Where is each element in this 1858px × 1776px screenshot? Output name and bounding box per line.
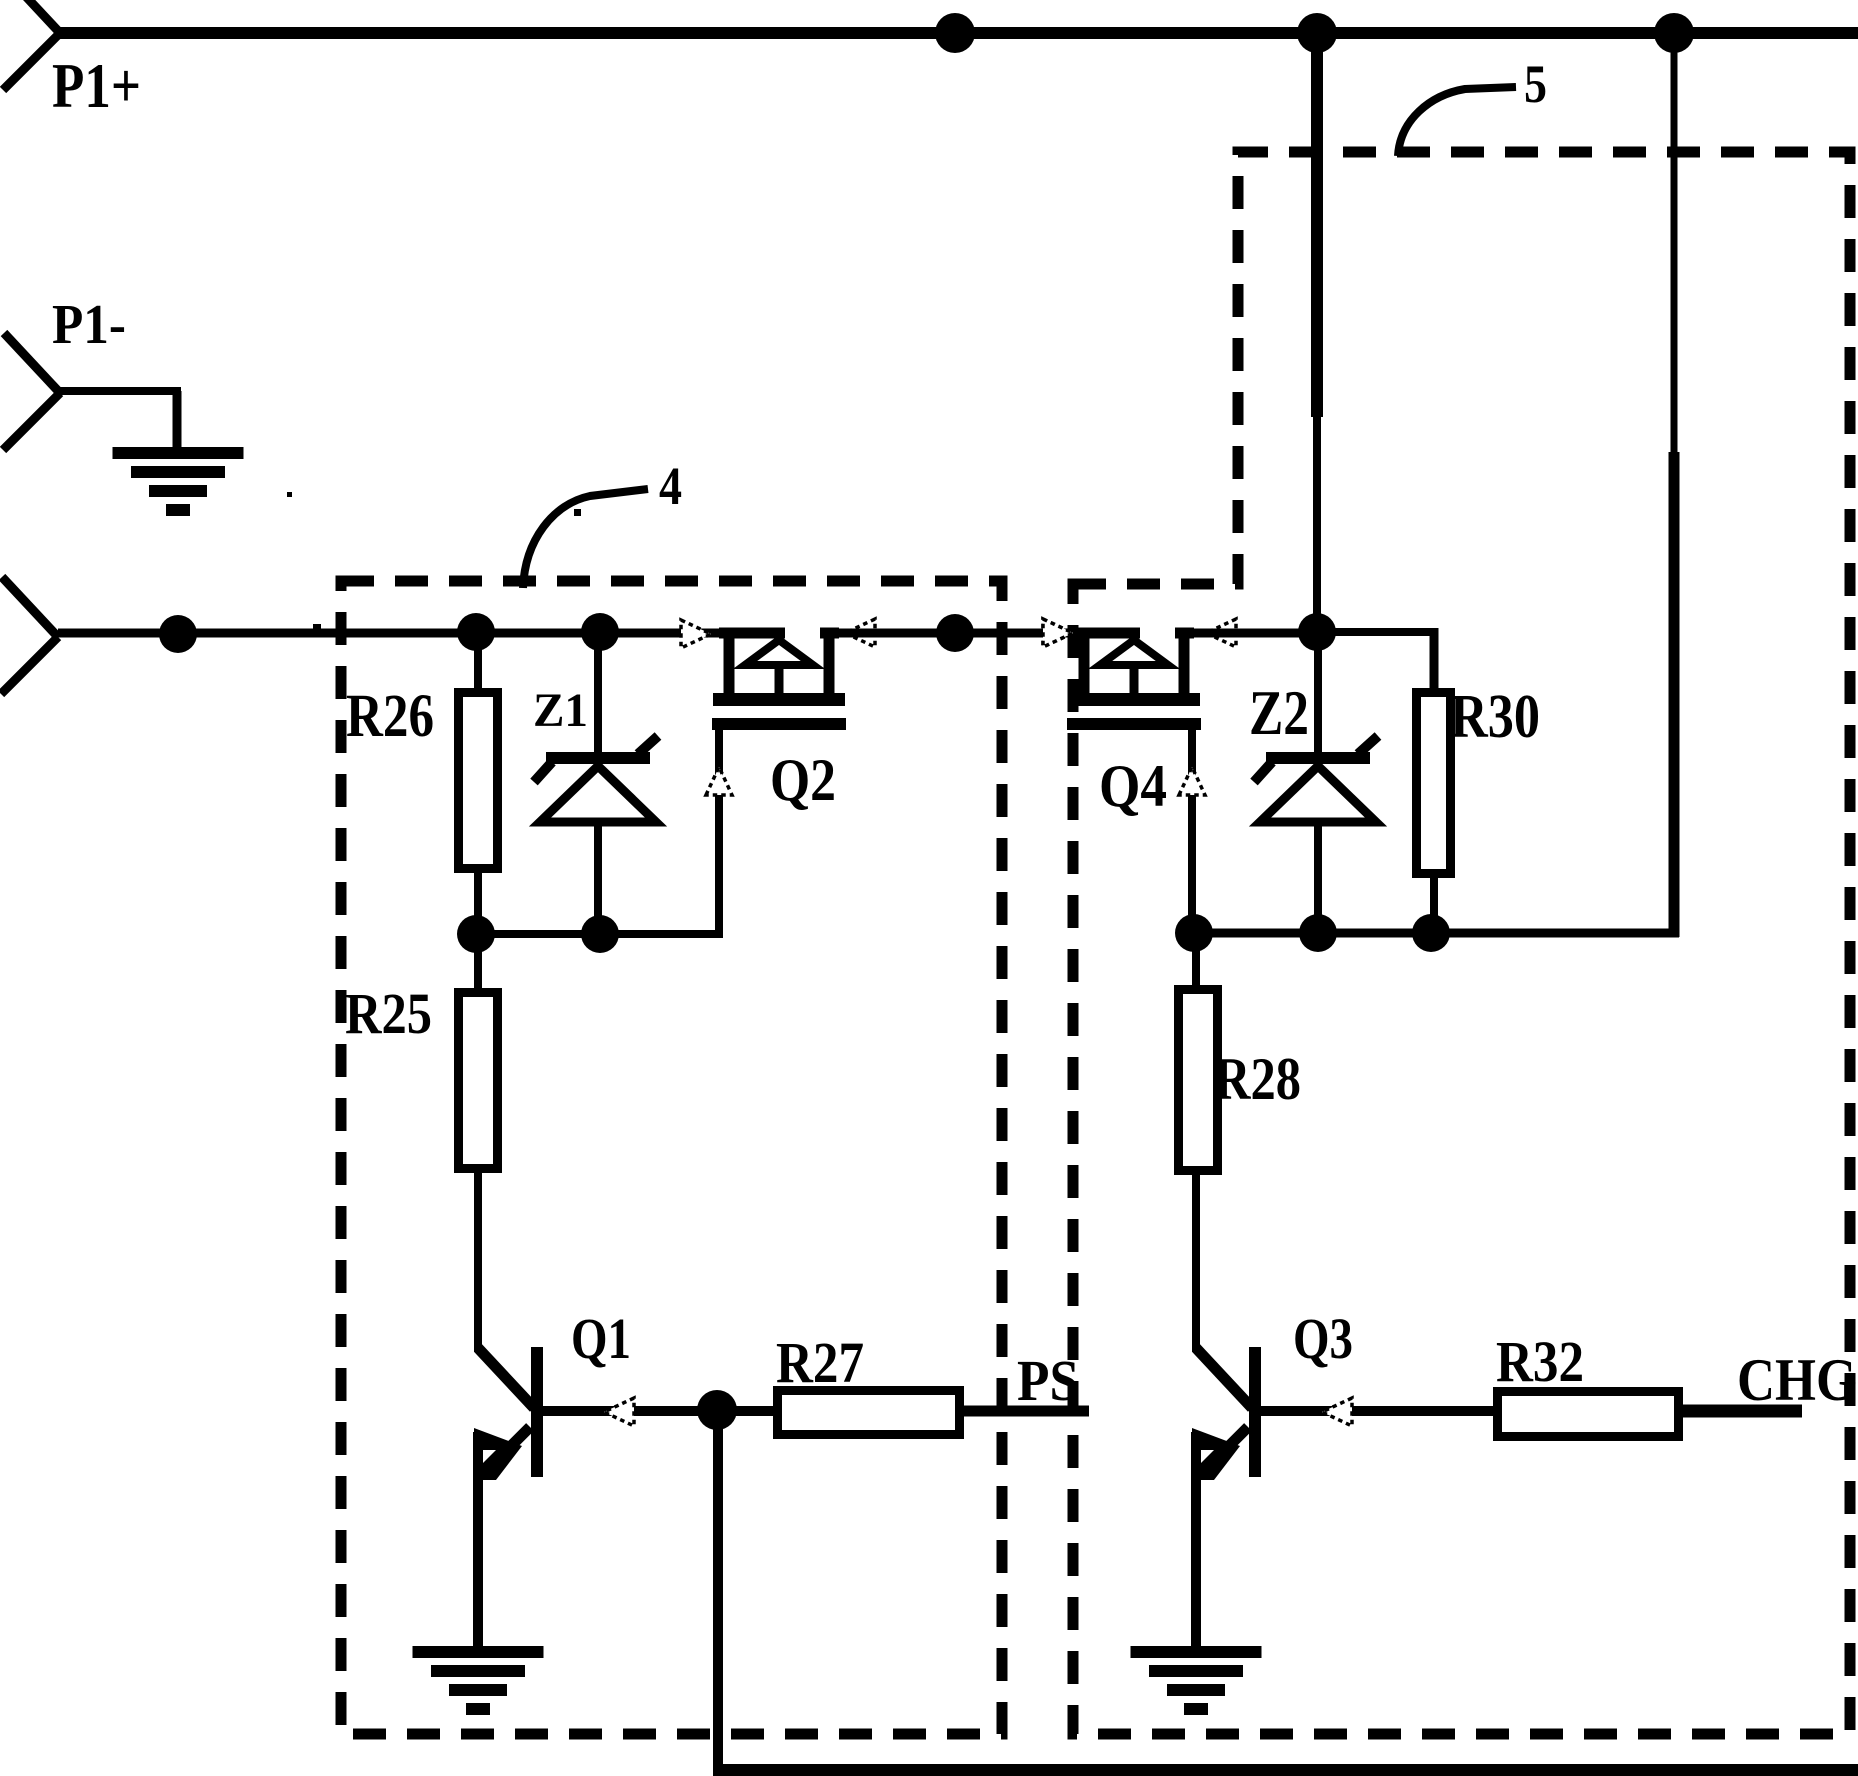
svg-text:Q2: Q2 bbox=[770, 747, 836, 813]
svg-text:R27: R27 bbox=[776, 1330, 864, 1395]
svg-text:P1+: P1+ bbox=[52, 51, 141, 121]
svg-text:R30: R30 bbox=[1450, 683, 1540, 751]
svg-text:CHG: CHG bbox=[1737, 1347, 1857, 1413]
svg-text:R32: R32 bbox=[1496, 1329, 1584, 1394]
svg-text:Q3: Q3 bbox=[1293, 1306, 1353, 1371]
svg-text:R28: R28 bbox=[1214, 1046, 1301, 1112]
svg-text:Z2: Z2 bbox=[1249, 678, 1309, 748]
svg-text:Q1: Q1 bbox=[571, 1306, 631, 1371]
svg-text:R26: R26 bbox=[346, 683, 434, 750]
svg-text:5: 5 bbox=[1524, 54, 1547, 114]
svg-text:PS: PS bbox=[1017, 1348, 1079, 1413]
svg-text:4: 4 bbox=[659, 456, 682, 516]
svg-text:Q4: Q4 bbox=[1099, 753, 1167, 819]
svg-text:R25: R25 bbox=[345, 981, 432, 1046]
svg-text:Z1: Z1 bbox=[533, 684, 588, 737]
svg-text:P1-: P1- bbox=[52, 294, 126, 356]
